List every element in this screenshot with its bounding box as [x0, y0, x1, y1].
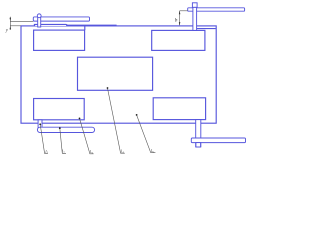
axle bar rear-right — [191, 138, 245, 143]
svg-text:b: b — [175, 17, 178, 23]
axle bar rear-left — [37, 127, 94, 132]
pin cap top-right — [192, 3, 197, 8]
pivot ball top-left — [37, 14, 41, 18]
leader 5 (frame plate) — [137, 115, 156, 153]
right knuckle plate line — [196, 28, 215, 30]
dimension y (top-left) — [10, 17, 33, 30]
engine block (centre rectangle) — [78, 57, 153, 90]
dimension y arrows — [10, 18, 12, 30]
wheel box rear-right — [153, 98, 205, 120]
wheel box rear-left — [34, 99, 85, 120]
white gap between axle beam and frame edge — [35, 25, 66, 27]
kingpin rear-right — [196, 120, 201, 147]
dimension b (top-right) — [180, 11, 188, 25]
wheel box front-left upper stub — [84, 26, 86, 30]
steering arm bar top-right — [188, 8, 245, 11]
steering arm bar top-left — [33, 17, 89, 21]
dimension b arrows — [179, 11, 181, 26]
pin cap rear-right — [196, 143, 201, 147]
frame (chassis outline) — [21, 26, 216, 123]
leader 1 (kingpin rear-left) — [40, 124, 48, 153]
kingpin top-left — [38, 17, 41, 27]
kingpin top-right — [193, 7, 197, 30]
leader 2 (axle bar rear-left) — [60, 128, 66, 153]
wheel box front-right — [152, 30, 205, 50]
kingpin rear-left — [38, 120, 42, 129]
wheel box front-left — [34, 30, 85, 50]
front axle beam line (left) — [34, 25, 116, 26]
leader 3 (wheel box rear-left) — [80, 118, 94, 153]
leader 4 (engine block) — [108, 88, 125, 153]
